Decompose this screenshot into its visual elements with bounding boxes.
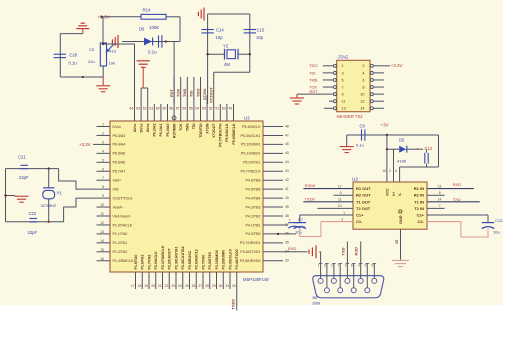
svg-text:64: 64 xyxy=(130,107,134,111)
svg-text:P1.6/TA1: P1.6/TA1 xyxy=(141,255,145,270)
svg-text:R2 OUT: R2 OUT xyxy=(356,193,371,198)
svg-text:P4.6/TB6: P4.6/TB6 xyxy=(246,179,261,183)
svg-text:DVcc: DVcc xyxy=(113,125,122,129)
svg-text:P2.1/TAINCLK: P2.1/TAINCLK xyxy=(161,245,165,269)
svg-text:C21: C21 xyxy=(18,154,26,159)
svg-text:T2 IN: T2 IN xyxy=(414,206,424,211)
svg-text:C1-: C1- xyxy=(356,219,363,224)
svg-text:8: 8 xyxy=(362,85,364,89)
svg-text:P4.3/TB3: P4.3/TB3 xyxy=(246,205,261,209)
svg-text:Y1: Y1 xyxy=(57,190,63,195)
svg-text:60: 60 xyxy=(156,107,160,111)
svg-text:R13: R13 xyxy=(109,48,117,53)
svg-text:TXD: TXD xyxy=(453,197,461,202)
svg-text:4: 4 xyxy=(102,149,104,153)
svg-text:13: 13 xyxy=(100,230,104,234)
svg-text:22pF: 22pF xyxy=(28,230,38,235)
svg-text:T1 IN: T1 IN xyxy=(414,199,424,204)
svg-text:TXD: TXD xyxy=(340,247,345,255)
svg-text:P6.1/A1: P6.1/A1 xyxy=(159,124,163,137)
svg-text:48: 48 xyxy=(285,124,289,128)
svg-text:4M: 4M xyxy=(224,62,230,67)
svg-text:15: 15 xyxy=(100,248,104,252)
svg-text:P3.7/URXD1: P3.7/URXD1 xyxy=(240,241,261,245)
svg-text:P5.2/SOMI1: P5.2/SOMI1 xyxy=(241,143,261,147)
svg-text:12: 12 xyxy=(338,184,342,188)
svg-text:RST/NMI: RST/NMI xyxy=(172,124,176,139)
svg-text:56: 56 xyxy=(182,107,186,111)
svg-text:P6.7/A7: P6.7/A7 xyxy=(113,170,126,174)
svg-text:7: 7 xyxy=(439,204,441,208)
svg-text:30: 30 xyxy=(219,284,223,288)
svg-text:U2: U2 xyxy=(352,177,358,182)
svg-text:T2 OUT: T2 OUT xyxy=(356,206,371,211)
svg-text:TMS: TMS xyxy=(186,123,190,131)
svg-text:P3.1/SIMO0: P3.1/SIMO0 xyxy=(215,250,219,270)
svg-text:P5.5/SMCLK: P5.5/SMCLK xyxy=(232,123,236,145)
svg-text:27: 27 xyxy=(198,284,202,288)
svg-text:TDO: TDO xyxy=(309,63,317,68)
svg-text:10: 10 xyxy=(100,203,104,207)
svg-text:4: 4 xyxy=(358,264,360,268)
svg-text:XOUT/TCLK: XOUT/TCLK xyxy=(113,196,134,200)
svg-text:3: 3 xyxy=(342,71,344,75)
svg-text:2: 2 xyxy=(362,64,364,68)
svg-text:0.1u: 0.1u xyxy=(356,142,364,147)
svg-text:2: 2 xyxy=(389,169,391,173)
svg-text:52: 52 xyxy=(209,107,213,111)
svg-text:6: 6 xyxy=(102,167,104,171)
svg-text:Y2: Y2 xyxy=(223,44,229,49)
svg-text:1: 1 xyxy=(318,264,320,268)
svg-text:D5: D5 xyxy=(399,137,405,142)
svg-text:45: 45 xyxy=(285,151,289,155)
svg-text:49: 49 xyxy=(229,107,233,111)
svg-text:C7: C7 xyxy=(298,217,304,222)
svg-text:12: 12 xyxy=(100,221,104,225)
svg-text:TDI: TDI xyxy=(309,70,315,75)
svg-text:P4.5/TB5: P4.5/TB5 xyxy=(246,187,261,191)
svg-text:R2 IN: R2 IN xyxy=(414,193,424,198)
svg-text:17: 17 xyxy=(131,284,135,288)
svg-text:TDO: TDO xyxy=(195,89,200,97)
svg-text:55: 55 xyxy=(189,107,193,111)
svg-text:RXD: RXD xyxy=(354,247,359,256)
svg-text:1: 1 xyxy=(342,64,344,68)
svg-text:C22: C22 xyxy=(29,211,37,216)
svg-text:P6.2/A2: P6.2/A2 xyxy=(153,124,157,137)
svg-text:15: 15 xyxy=(395,240,399,244)
svg-text:7: 7 xyxy=(102,176,104,180)
svg-text:40: 40 xyxy=(285,196,289,200)
svg-text:TXD0: TXD0 xyxy=(305,196,316,201)
svg-text:TXD0: TXD0 xyxy=(231,299,236,310)
svg-text:Veref+: Veref+ xyxy=(113,205,124,209)
svg-text:P6.4/A4: P6.4/A4 xyxy=(113,143,126,147)
svg-text:GND: GND xyxy=(399,215,403,224)
svg-text:P5.4/MCLK: P5.4/MCLK xyxy=(242,125,261,129)
svg-text:RXD: RXD xyxy=(453,182,462,187)
svg-text:U3: U3 xyxy=(244,116,250,121)
svg-text:3: 3 xyxy=(341,218,343,222)
svg-text:42: 42 xyxy=(285,178,289,182)
svg-text:Vref+: Vref+ xyxy=(113,179,122,183)
svg-text:14: 14 xyxy=(360,107,364,111)
svg-text:P3.3/UCLK0: P3.3/UCLK0 xyxy=(228,249,232,269)
svg-text:P4.7/TBCLK: P4.7/TBCLK xyxy=(241,170,262,174)
svg-text:P3.6/UTXD1: P3.6/UTXD1 xyxy=(240,250,260,254)
svg-text:6: 6 xyxy=(362,78,364,82)
svg-text:100K: 100K xyxy=(149,25,159,30)
svg-text:22u: 22u xyxy=(88,59,95,64)
svg-text:+3.3V: +3.3V xyxy=(391,63,403,68)
svg-text:TDO/TDI: TDO/TDI xyxy=(199,124,203,138)
svg-text:XT2OUT: XT2OUT xyxy=(209,87,214,103)
svg-text:P3.4/UTXD0: P3.4/UTXD0 xyxy=(235,249,239,269)
svg-text:P2.0/ACLK: P2.0/ACLK xyxy=(154,251,158,270)
svg-text:P2.3/CA0/TA1: P2.3/CA0/TA1 xyxy=(174,246,178,269)
svg-text:6: 6 xyxy=(395,169,397,173)
svg-text:B9: B9 xyxy=(313,295,319,300)
svg-text:9: 9 xyxy=(365,264,367,268)
svg-text:7: 7 xyxy=(342,85,344,89)
svg-text:T1 OUT: T1 OUT xyxy=(356,199,371,204)
svg-text:MSP430F149: MSP430F149 xyxy=(243,277,269,282)
svg-text:P5.7/TBOUTH: P5.7/TBOUTH xyxy=(219,123,223,147)
svg-text:13: 13 xyxy=(438,184,442,188)
svg-text:P2.6/ADC12: P2.6/ADC12 xyxy=(195,249,199,269)
svg-text:51: 51 xyxy=(215,107,219,111)
svg-text:5: 5 xyxy=(342,78,344,82)
svg-text:11: 11 xyxy=(100,212,104,216)
svg-text:46: 46 xyxy=(285,142,289,146)
svg-text:P2.7/TA0: P2.7/TA0 xyxy=(201,255,205,270)
svg-text:VCC: VCC xyxy=(385,188,389,196)
svg-text:P6.5/A5: P6.5/A5 xyxy=(113,152,126,156)
svg-text:RXD0: RXD0 xyxy=(305,183,316,188)
svg-text:10u: 10u xyxy=(295,230,302,235)
svg-text:P1.1/TA0: P1.1/TA0 xyxy=(113,232,128,236)
svg-text:P3.0/STE0: P3.0/STE0 xyxy=(208,252,212,269)
svg-text:P6.0/A0: P6.0/A0 xyxy=(166,124,170,137)
svg-text:5: 5 xyxy=(102,158,104,162)
svg-text:31: 31 xyxy=(225,284,229,288)
svg-text:32768HZ: 32768HZ xyxy=(41,204,57,208)
svg-text:6: 6 xyxy=(324,264,326,268)
svg-text:22: 22 xyxy=(165,284,169,288)
svg-text:C8: C8 xyxy=(360,124,366,129)
svg-text:50: 50 xyxy=(222,107,226,111)
svg-text:14: 14 xyxy=(438,198,442,202)
svg-text:DB9: DB9 xyxy=(313,301,322,306)
svg-text:1: 1 xyxy=(102,123,104,127)
svg-text:+3.3V: +3.3V xyxy=(79,142,91,147)
svg-text:TDI: TDI xyxy=(192,124,196,130)
svg-text:0.1u: 0.1u xyxy=(69,61,78,66)
svg-text:C2+: C2+ xyxy=(417,213,425,218)
svg-text:AVcc: AVcc xyxy=(133,124,137,133)
svg-text:35: 35 xyxy=(285,241,289,245)
svg-text:C1+: C1+ xyxy=(356,213,364,218)
svg-text:47: 47 xyxy=(285,133,289,137)
svg-text:22pF: 22pF xyxy=(19,175,29,180)
svg-text:P6.6/A6: P6.6/A6 xyxy=(113,161,126,165)
svg-text:18: 18 xyxy=(138,284,142,288)
svg-text:9: 9 xyxy=(340,191,342,195)
svg-text:41: 41 xyxy=(285,187,289,191)
svg-text:XT2OUT: XT2OUT xyxy=(212,123,216,138)
svg-text:8: 8 xyxy=(102,185,104,189)
svg-text:Vref-/Veref-: Vref-/Veref- xyxy=(113,214,132,218)
svg-text:10p: 10p xyxy=(216,35,224,40)
svg-text:4: 4 xyxy=(362,71,364,75)
svg-text:3: 3 xyxy=(102,140,104,144)
svg-text:C2-: C2- xyxy=(418,219,425,224)
svg-text:20: 20 xyxy=(151,284,155,288)
svg-text:1: 1 xyxy=(343,211,345,215)
svg-text:C13: C13 xyxy=(495,218,503,223)
svg-text:P4.4/TB4: P4.4/TB4 xyxy=(246,196,261,200)
svg-text:25: 25 xyxy=(185,284,189,288)
svg-text:XT2IN: XT2IN xyxy=(205,123,209,134)
svg-text:33: 33 xyxy=(285,259,289,263)
svg-text:4148: 4148 xyxy=(397,159,407,164)
svg-text:P4.1/TB1: P4.1/TB1 xyxy=(246,223,261,227)
svg-text:39: 39 xyxy=(285,205,289,209)
svg-text:11: 11 xyxy=(342,100,346,104)
svg-text:R14: R14 xyxy=(143,8,152,13)
svg-text:C12: C12 xyxy=(425,146,433,151)
svg-text:XIN: XIN xyxy=(113,187,119,191)
svg-text:58: 58 xyxy=(169,107,173,111)
svg-text:62: 62 xyxy=(143,107,147,111)
svg-text:P6.3/A3: P6.3/A3 xyxy=(113,134,126,138)
svg-text:26: 26 xyxy=(192,284,196,288)
svg-text:16: 16 xyxy=(100,257,104,261)
svg-text:10p: 10p xyxy=(256,35,264,40)
svg-text:2: 2 xyxy=(331,264,333,268)
svg-text:+: + xyxy=(289,217,292,222)
svg-text:TCK: TCK xyxy=(176,89,181,97)
svg-text:59: 59 xyxy=(163,107,167,111)
svg-text:10: 10 xyxy=(338,204,342,208)
svg-text:7: 7 xyxy=(337,264,339,268)
svg-text:D6: D6 xyxy=(139,26,145,31)
svg-text:C20: C20 xyxy=(70,53,78,58)
svg-text:P1.4/SMCLK: P1.4/SMCLK xyxy=(113,259,134,263)
svg-text:13: 13 xyxy=(342,107,346,111)
svg-text:P1.2/TA1: P1.2/TA1 xyxy=(113,241,128,245)
svg-text:28: 28 xyxy=(205,284,209,288)
svg-text:16: 16 xyxy=(382,169,386,173)
svg-text:P1.3/TA2: P1.3/TA2 xyxy=(113,250,128,254)
svg-text:JTAG: JTAG xyxy=(338,55,349,60)
svg-text:54: 54 xyxy=(196,107,200,111)
svg-text:R1 OUT: R1 OUT xyxy=(356,186,371,191)
svg-text:TMS: TMS xyxy=(309,77,318,82)
svg-text:RXD: RXD xyxy=(288,246,297,251)
svg-text:44: 44 xyxy=(285,160,289,164)
svg-text:RST: RST xyxy=(169,88,174,97)
svg-text:P1.7/TA2: P1.7/TA2 xyxy=(147,255,151,270)
svg-text:P5.6/ACLK: P5.6/ACLK xyxy=(225,123,229,142)
svg-text:DVss: DVss xyxy=(139,124,143,133)
svg-text:P4.0/TB0: P4.0/TB0 xyxy=(246,232,261,236)
svg-text:P5.1/SIMO1: P5.1/SIMO1 xyxy=(241,152,261,156)
svg-text:29: 29 xyxy=(212,284,216,288)
svg-text:1u: 1u xyxy=(301,225,305,229)
svg-text:2: 2 xyxy=(102,131,104,135)
svg-text:TMS: TMS xyxy=(182,88,187,97)
svg-text:P2.2/CAOUT: P2.2/CAOUT xyxy=(168,248,172,270)
svg-text:10: 10 xyxy=(360,93,364,97)
svg-text:10k: 10k xyxy=(109,60,115,65)
svg-text:P5.3/UCLK1: P5.3/UCLK1 xyxy=(241,134,261,138)
svg-text:24: 24 xyxy=(178,284,182,288)
svg-text:10u: 10u xyxy=(493,230,500,235)
svg-text:R1 IN: R1 IN xyxy=(414,186,424,191)
svg-text:57: 57 xyxy=(176,107,180,111)
svg-text:53: 53 xyxy=(202,107,206,111)
svg-text:32: 32 xyxy=(232,284,236,288)
svg-text:HEADER 7X2: HEADER 7X2 xyxy=(337,114,364,119)
svg-text:19: 19 xyxy=(144,284,148,288)
svg-text:P3.5/URXD0: P3.5/URXD0 xyxy=(240,259,261,263)
svg-text:12: 12 xyxy=(360,100,364,104)
svg-text:0.1u: 0.1u xyxy=(148,49,157,54)
svg-text:5: 5 xyxy=(372,264,374,268)
svg-text:C15: C15 xyxy=(257,28,265,33)
svg-text:P2.4/CA1/TA2: P2.4/CA1/TA2 xyxy=(181,246,185,269)
svg-text:+: + xyxy=(417,147,420,152)
svg-text:9: 9 xyxy=(342,93,344,97)
svg-text:23: 23 xyxy=(171,284,175,288)
svg-text:P3.2/SOMI0: P3.2/SOMI0 xyxy=(222,250,226,270)
svg-text:P2.5/ROSC: P2.5/ROSC xyxy=(188,250,192,269)
svg-text:9: 9 xyxy=(102,194,104,198)
svg-text:P1.0/TACLK: P1.0/TACLK xyxy=(113,223,133,227)
svg-text:11: 11 xyxy=(338,198,342,202)
svg-text:RST: RST xyxy=(310,89,319,94)
svg-text:63: 63 xyxy=(136,107,140,111)
svg-text:8: 8 xyxy=(439,191,441,195)
svg-text:+3V: +3V xyxy=(381,123,389,128)
svg-text:14: 14 xyxy=(100,239,104,243)
svg-text:P4.2/TB2: P4.2/TB2 xyxy=(246,214,261,218)
svg-text:TDI: TDI xyxy=(189,91,194,97)
svg-text:61: 61 xyxy=(149,107,153,111)
svg-text:V+: V+ xyxy=(392,192,396,197)
svg-text:3: 3 xyxy=(345,264,347,268)
svg-text:21: 21 xyxy=(158,284,162,288)
svg-text:C5: C5 xyxy=(89,47,95,52)
svg-text:8: 8 xyxy=(351,264,353,268)
svg-text:AVss: AVss xyxy=(146,124,150,133)
svg-text:P1.5/TA0: P1.5/TA0 xyxy=(134,255,138,270)
svg-text:TCK: TCK xyxy=(179,123,183,131)
svg-text:43: 43 xyxy=(285,169,289,173)
svg-text:P5.0/STE1: P5.0/STE1 xyxy=(243,161,260,165)
svg-text:XT2IN: XT2IN xyxy=(202,89,207,100)
svg-text:C14: C14 xyxy=(216,28,224,33)
